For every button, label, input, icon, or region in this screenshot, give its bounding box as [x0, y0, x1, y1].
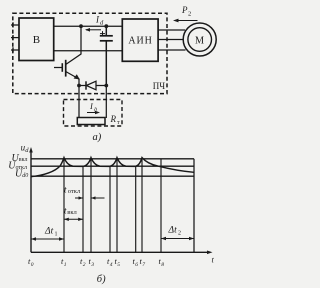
svg-text:М: М: [195, 35, 204, 46]
svg-text:7: 7: [142, 262, 145, 268]
level line U otkl: [31, 165, 194, 167]
resistor Rт: [77, 118, 105, 125]
svg-text:P: P: [181, 5, 188, 15]
label Id top: [95, 14, 104, 26]
capacitor C: [100, 26, 113, 85]
svg-text:АИН: АИН: [128, 36, 152, 47]
svg-text:8: 8: [161, 262, 164, 268]
svg-text:2: 2: [178, 231, 181, 237]
transistor VT (IGBT): [54, 26, 81, 85]
node diode-right junction: [104, 84, 108, 88]
inverter АИН: [122, 19, 158, 61]
dimension arrows t otkl: [75, 196, 105, 199]
svg-text:Δt: Δt: [168, 226, 178, 236]
label Rт: [110, 114, 121, 126]
dimension arrows t vkl: [64, 218, 83, 221]
gate lead: [54, 67, 62, 69]
current arrow Id (pointing left): [85, 28, 101, 32]
svg-text:вкл: вкл: [67, 209, 77, 216]
gridline t7: [141, 158, 143, 252]
label Iд: [89, 101, 97, 114]
current arrow Iд (pointing right): [87, 111, 100, 115]
gridline t3: [90, 158, 92, 252]
svg-text:R: R: [110, 114, 117, 124]
label ud axis: [21, 143, 30, 155]
level line Ud0: [31, 175, 194, 177]
wire to braking resistor right: [105, 86, 107, 119]
label Ud0: [15, 169, 28, 180]
dimension arrow delta t1: [31, 237, 64, 240]
label t vkl: [64, 206, 78, 216]
gate bar: [61, 63, 63, 72]
gridline t1: [63, 158, 65, 252]
dimension arrow delta t2: [161, 237, 194, 240]
svg-text:ПЧ: ПЧ: [153, 81, 165, 91]
capacitor C plus sign: [100, 31, 105, 36]
label delta t1: [44, 227, 58, 238]
gridline t6: [135, 166, 137, 252]
svg-text:Δt: Δt: [44, 227, 54, 237]
voltage curve ud(t): [31, 158, 194, 177]
gridline t4: [109, 166, 111, 252]
svg-text:В: В: [33, 34, 40, 46]
body bar: [65, 60, 67, 77]
svg-text:вкл: вкл: [19, 157, 28, 163]
motor M outer circle: [183, 23, 216, 56]
svg-text:т: т: [117, 120, 120, 126]
svg-text:5: 5: [117, 262, 120, 268]
motor wires: [158, 30, 185, 50]
node collector junction: [79, 24, 83, 28]
motor M inner circle: [188, 28, 212, 52]
label U vkl: [12, 153, 28, 164]
node capacitor junction: [104, 24, 108, 28]
svg-text:1: 1: [64, 262, 67, 268]
y axis ud: [29, 147, 33, 252]
rectifier B: [19, 18, 54, 61]
wire to braking resistor left: [78, 86, 80, 119]
level line U vkl: [31, 158, 194, 160]
svg-text:4: 4: [110, 261, 113, 268]
svg-text:d0: d0: [22, 173, 28, 179]
arrow P2 (pointing left): [173, 19, 198, 23]
label P2: [181, 5, 191, 18]
emitter wire with arrow: [66, 72, 79, 80]
label U otkl: [8, 161, 27, 172]
svg-text:откл: откл: [68, 188, 81, 195]
diode VD: [79, 81, 106, 90]
time axis labels: [28, 255, 215, 269]
gridline t5: [116, 158, 118, 252]
wire top DC bus: [54, 25, 123, 27]
svg-text:0: 0: [31, 262, 34, 268]
svg-text:6: 6: [135, 262, 138, 268]
label delta t2: [168, 226, 182, 237]
three-phase input wires: [11, 22, 19, 52]
wire lower DC bus: [54, 50, 123, 52]
x axis t: [31, 251, 213, 255]
graph right edge: [193, 159, 195, 253]
svg-text:а): а): [93, 132, 102, 143]
dashed frequency converter box ПЧ: [13, 13, 167, 93]
svg-text:б): б): [97, 274, 106, 285]
node emitter-diode: [77, 84, 81, 88]
label t otkl: [64, 185, 81, 195]
svg-text:3: 3: [90, 262, 94, 268]
svg-text:2: 2: [83, 262, 86, 268]
svg-text:1: 1: [55, 232, 58, 238]
gridline t8: [160, 159, 162, 252]
gridline t2: [82, 166, 84, 252]
dashed braking module box: [64, 100, 123, 127]
collector wire from top bus: [66, 26, 81, 64]
svg-text:2: 2: [188, 11, 191, 18]
